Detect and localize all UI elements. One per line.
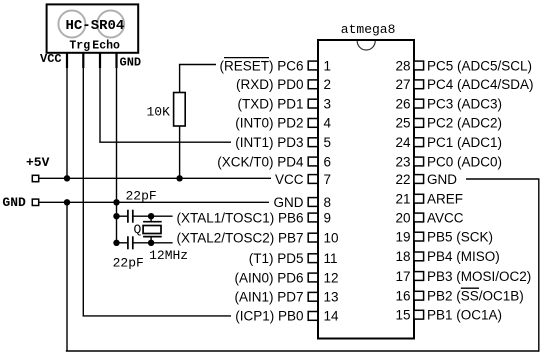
junction dot resistor/+5V — [176, 175, 182, 181]
pin 27 box — [414, 80, 424, 89]
svg-text:17: 17 — [395, 269, 410, 284]
sensor U2 HC-SR04 body — [47, 4, 139, 52]
svg-text:18: 18 — [395, 249, 410, 264]
svg-text:2: 2 — [324, 77, 332, 92]
svg-text:+5V: +5V — [26, 155, 50, 170]
svg-text:GND: GND — [2, 195, 26, 210]
pin 1 box — [308, 61, 318, 70]
crystal Q 12MHz — [134, 216, 189, 263]
pin 3 box — [308, 99, 318, 108]
svg-text:PC2 (ADC2): PC2 (ADC2) — [427, 116, 502, 131]
svg-text:23: 23 — [395, 154, 410, 169]
svg-text:16: 16 — [395, 289, 410, 304]
wire +5V rail — [39, 177, 271, 179]
junction dot C2 left node — [113, 240, 119, 246]
pin 24 box — [414, 138, 424, 147]
svg-text:28: 28 — [395, 58, 410, 73]
terminal +5V — [26, 155, 50, 182]
sensor pin GND stub — [115, 53, 117, 68]
svg-text:7: 7 — [324, 172, 332, 187]
svg-text:26: 26 — [395, 96, 410, 111]
pin 2 box — [308, 80, 318, 89]
svg-text:(AIN1) PD7: (AIN1) PD7 — [234, 290, 303, 305]
svg-text:(XCK/T0) PD4: (XCK/T0) PD4 — [217, 154, 304, 169]
svg-text:10: 10 — [324, 230, 339, 245]
svg-text:9: 9 — [324, 210, 332, 225]
svg-text:VCC: VCC — [275, 172, 304, 187]
svg-text:Trg: Trg — [69, 40, 90, 53]
IC U1 atmega8 body — [318, 22, 414, 339]
svg-text:(RXD) PD0: (RXD) PD0 — [236, 77, 304, 92]
junction dot crystal top node — [148, 213, 154, 219]
svg-text:(T1) PD5: (T1) PD5 — [249, 251, 304, 266]
svg-text:AVCC: AVCC — [427, 210, 464, 225]
pin 15 box — [414, 310, 424, 319]
pin 26 box — [414, 99, 424, 108]
pin 17 box — [414, 272, 424, 281]
svg-text:(INT1) PD3: (INT1) PD3 — [235, 135, 303, 150]
svg-text:(AIN0) PD6: (AIN0) PD6 — [234, 270, 303, 285]
svg-text:PC3 (ADC3): PC3 (ADC3) — [427, 96, 502, 111]
svg-text:GND: GND — [120, 56, 142, 70]
wire sensor Trg down to PB0 row — [82, 66, 84, 316]
svg-text:22pF: 22pF — [113, 256, 144, 271]
svg-text:15: 15 — [395, 308, 410, 323]
svg-text:(TXD) PD1: (TXD) PD1 — [237, 96, 303, 111]
svg-text:PB3 (MOSI/OC2): PB3 (MOSI/OC2) — [427, 269, 531, 284]
terminal GND — [2, 195, 38, 210]
junction dot crystal bottom node — [148, 240, 154, 246]
wire sensor GND down to caps node — [116, 66, 118, 243]
pin 6 box — [308, 157, 318, 166]
pin 18 box — [414, 252, 424, 261]
sensor pin Trg stub — [82, 53, 84, 68]
wire GND pin22 horizontal — [466, 178, 540, 180]
svg-text:Echo: Echo — [92, 40, 120, 53]
pin 23 box — [414, 157, 424, 166]
sensor pin Echo stub — [99, 53, 101, 68]
svg-text:3: 3 — [324, 96, 332, 111]
wire GND rail down to bottom bus — [66, 202, 68, 351]
wire sensor Echo down to PD3 row — [99, 66, 101, 142]
svg-text:HC-SR04: HC-SR04 — [66, 18, 125, 34]
pin 10 box — [308, 233, 318, 242]
svg-text:22pF: 22pF — [126, 188, 157, 203]
svg-text:atmega8: atmega8 — [341, 22, 396, 37]
svg-text:11: 11 — [324, 251, 338, 266]
overline over RESET in (RESET) PC6 — [224, 57, 269, 59]
svg-text:PB4 (MISO): PB4 (MISO) — [427, 249, 500, 264]
svg-text:6: 6 — [324, 154, 332, 169]
svg-text:8: 8 — [324, 195, 332, 210]
pin 7 box — [308, 175, 318, 184]
svg-text:25: 25 — [395, 116, 410, 131]
capacitor C1 22pF (top) — [117, 188, 173, 222]
svg-text:13: 13 — [324, 290, 339, 305]
pin 22 box — [414, 175, 424, 184]
svg-text:PB5 (SCK): PB5 (SCK) — [427, 229, 493, 244]
svg-text:20: 20 — [395, 210, 410, 225]
pin 21 box — [414, 194, 424, 203]
svg-text:VCC: VCC — [40, 52, 62, 66]
pin 12 box — [308, 273, 318, 282]
pin 9 box — [308, 213, 318, 222]
pin 28 box — [414, 61, 424, 70]
pin 14 box — [308, 312, 318, 321]
svg-text:5: 5 — [324, 135, 332, 150]
svg-text:(ICP1) PB0: (ICP1) PB0 — [235, 309, 303, 324]
wire GND rail — [39, 201, 269, 203]
wire bottom ground bus — [66, 350, 539, 352]
wire PB0 (ICP1) horizontal — [83, 315, 231, 317]
svg-text:27: 27 — [395, 77, 410, 92]
svg-text:12MHz: 12MHz — [149, 248, 188, 263]
svg-text:4: 4 — [324, 116, 332, 131]
svg-text:Q: Q — [134, 222, 142, 237]
svg-text:(XTAL1/TOSC1) PB6: (XTAL1/TOSC1) PB6 — [176, 210, 303, 225]
overline over SS in PB2 (SS/OC1B) — [461, 287, 479, 289]
svg-text:12: 12 — [324, 270, 339, 285]
svg-text:PC5 (ADC5/SCL): PC5 (ADC5/SCL) — [427, 58, 532, 73]
sensor pin VCC stub — [66, 53, 68, 68]
svg-text:(RESET) PC6: (RESET) PC6 — [219, 58, 303, 73]
svg-text:PC4 (ADC4/SDA): PC4 (ADC4/SDA) — [427, 77, 534, 92]
svg-text:PC1 (ADC1): PC1 (ADC1) — [427, 135, 502, 150]
wire RESET (PC6) horizontal — [179, 64, 216, 66]
svg-text:10K: 10K — [147, 105, 171, 120]
capacitor C2 22pF (bottom) — [113, 236, 173, 270]
wire PD3 (INT1) horizontal — [99, 141, 231, 143]
resistor R1 10K — [147, 65, 186, 179]
pin 8 box — [308, 198, 318, 207]
pin 5 box — [308, 138, 318, 147]
svg-text:PB1 (OC1A): PB1 (OC1A) — [427, 308, 502, 323]
svg-text:1: 1 — [324, 58, 332, 73]
svg-text:(XTAL2/TOSC2) PB7: (XTAL2/TOSC2) PB7 — [176, 230, 303, 245]
svg-text:22: 22 — [395, 172, 410, 187]
svg-text:14: 14 — [324, 309, 340, 324]
junction dot GND rail/down wire — [64, 199, 70, 205]
wire sensor VCC down to +5V rail — [66, 66, 68, 178]
pin 13 box — [308, 292, 318, 301]
svg-text:AREF: AREF — [427, 192, 463, 207]
svg-text:PC0 (ADC0): PC0 (ADC0) — [427, 154, 502, 169]
svg-text:GND: GND — [274, 195, 304, 210]
svg-text:21: 21 — [395, 192, 410, 207]
svg-text:GND: GND — [427, 172, 457, 187]
pin 20 box — [414, 213, 424, 222]
pin 19 box — [414, 232, 424, 241]
pin 11 box — [308, 254, 318, 263]
svg-text:(INT0) PD2: (INT0) PD2 — [235, 116, 303, 131]
pin 16 box — [414, 291, 424, 300]
svg-text:PB2 (SS/OC1B): PB2 (SS/OC1B) — [427, 289, 524, 304]
pin 25 box — [414, 119, 424, 128]
wire right side up to GND pin22 — [538, 179, 540, 352]
junction dot GND rail/sensor GND — [113, 199, 119, 205]
svg-text:19: 19 — [395, 229, 410, 244]
junction dot VCC/+5V — [64, 175, 70, 181]
junction dot C1 left node — [113, 213, 119, 219]
svg-text:24: 24 — [395, 135, 411, 150]
pin 4 box — [308, 119, 318, 128]
